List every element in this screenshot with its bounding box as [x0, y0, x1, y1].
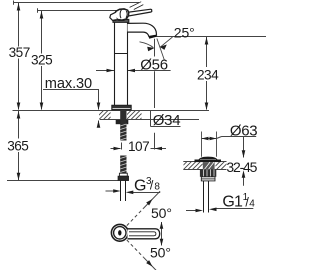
svg-text:325: 325: [31, 53, 52, 68]
svg-text:25°: 25°: [174, 25, 195, 41]
svg-text:G: G: [134, 177, 146, 194]
svg-text:G1: G1: [222, 194, 243, 211]
svg-text:107: 107: [128, 139, 149, 154]
svg-text:357: 357: [9, 45, 30, 60]
svg-text:/: /: [245, 196, 249, 210]
svg-text:50°: 50°: [151, 205, 172, 221]
svg-text:max.30: max.30: [45, 76, 92, 92]
svg-text:Ø63: Ø63: [230, 122, 257, 139]
svg-text:365: 365: [7, 139, 28, 154]
svg-text:32-45: 32-45: [226, 159, 257, 175]
svg-text:8: 8: [154, 181, 160, 192]
svg-text:4: 4: [249, 198, 255, 209]
svg-text:50°: 50°: [150, 244, 171, 260]
svg-text:234: 234: [197, 67, 219, 82]
svg-text:Ø56: Ø56: [140, 56, 167, 73]
svg-text:Ø34: Ø34: [153, 112, 180, 129]
svg-text:/: /: [150, 179, 154, 193]
